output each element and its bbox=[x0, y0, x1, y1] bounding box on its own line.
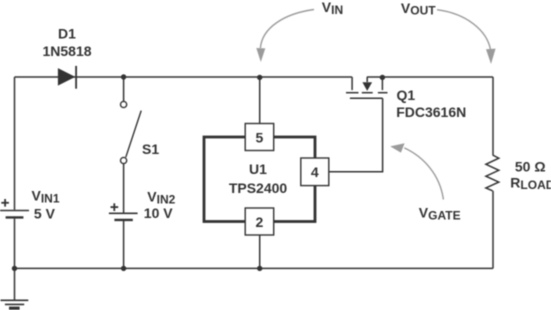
resistor RLOAD bbox=[486, 155, 499, 191]
transistor Q1 (P-MOSFET) bbox=[346, 77, 388, 98]
wire VIN node to pin 5 bbox=[259, 77, 261, 123]
svg-text:2: 2 bbox=[256, 214, 264, 230]
svg-text:VGATE: VGATE bbox=[419, 205, 461, 223]
battery VIN2 bbox=[109, 203, 138, 220]
svg-text:VIN: VIN bbox=[322, 0, 343, 17]
node VIN junction S1 bbox=[121, 74, 126, 79]
svg-text:S1: S1 bbox=[142, 141, 159, 157]
node VIN annotation arrow bbox=[256, 10, 314, 63]
svg-text:4: 4 bbox=[311, 164, 319, 180]
wire ground stem bbox=[14, 268, 16, 300]
diode D1 bbox=[58, 66, 76, 89]
wire top rail right (Q1 drain to output corner) bbox=[367, 76, 493, 78]
node bottom-left junction bbox=[12, 266, 17, 271]
pin 4 bbox=[301, 158, 329, 186]
wire S1 branch top bbox=[123, 77, 125, 101]
pin 5 bbox=[245, 124, 274, 151]
svg-text:Q1: Q1 bbox=[397, 87, 416, 103]
battery VIN1 bbox=[0, 199, 29, 217]
svg-text:5 V: 5 V bbox=[34, 206, 56, 222]
node pin2 bottom junction bbox=[257, 266, 262, 271]
svg-text:VIN1: VIN1 bbox=[32, 188, 60, 206]
body diode of Q1 bbox=[362, 82, 372, 91]
svg-text:50 Ω: 50 Ω bbox=[515, 158, 546, 174]
wire pin 4 to Q1 gate bbox=[329, 98, 383, 172]
svg-text:10 V: 10 V bbox=[144, 205, 173, 221]
node VIN junction pin5 bbox=[257, 75, 262, 80]
wire pin 2 to ground rail bbox=[259, 235, 261, 268]
op-amp U1 (IC body) bbox=[204, 137, 315, 222]
wire S1 to VIN2 bbox=[123, 164, 125, 213]
svg-text:D1: D1 bbox=[58, 25, 76, 41]
wire left side VIN1 bottom bbox=[14, 219, 16, 269]
wire left side VIN1 top bbox=[14, 77, 16, 210]
svg-text:5: 5 bbox=[256, 129, 264, 145]
node VIN2 bottom junction bbox=[121, 266, 126, 271]
node VGATE annotation arrow bbox=[390, 143, 443, 199]
wire right side below load bbox=[492, 191, 494, 269]
wire right side down to load bbox=[492, 77, 494, 155]
node VOUT annotation arrow bbox=[437, 10, 496, 64]
node Q1 drain junction bbox=[380, 75, 385, 80]
svg-text:TPS2400: TPS2400 bbox=[229, 180, 288, 196]
svg-text:U1: U1 bbox=[249, 161, 267, 177]
switch S1 bbox=[121, 101, 142, 163]
svg-text:VIN2: VIN2 bbox=[147, 189, 175, 207]
ground bbox=[1, 300, 29, 308]
svg-text:VOUT: VOUT bbox=[401, 0, 436, 18]
pin 2 bbox=[245, 208, 274, 235]
wire bottom rail bbox=[15, 267, 494, 269]
svg-text:1N5818: 1N5818 bbox=[42, 43, 91, 59]
wire top rail left (VIN1 to Q1 source) bbox=[15, 76, 353, 78]
svg-text:FDC3616N: FDC3616N bbox=[396, 104, 466, 120]
wire VIN2 bottom bbox=[123, 221, 125, 268]
svg-text:RLOAD: RLOAD bbox=[510, 174, 551, 192]
